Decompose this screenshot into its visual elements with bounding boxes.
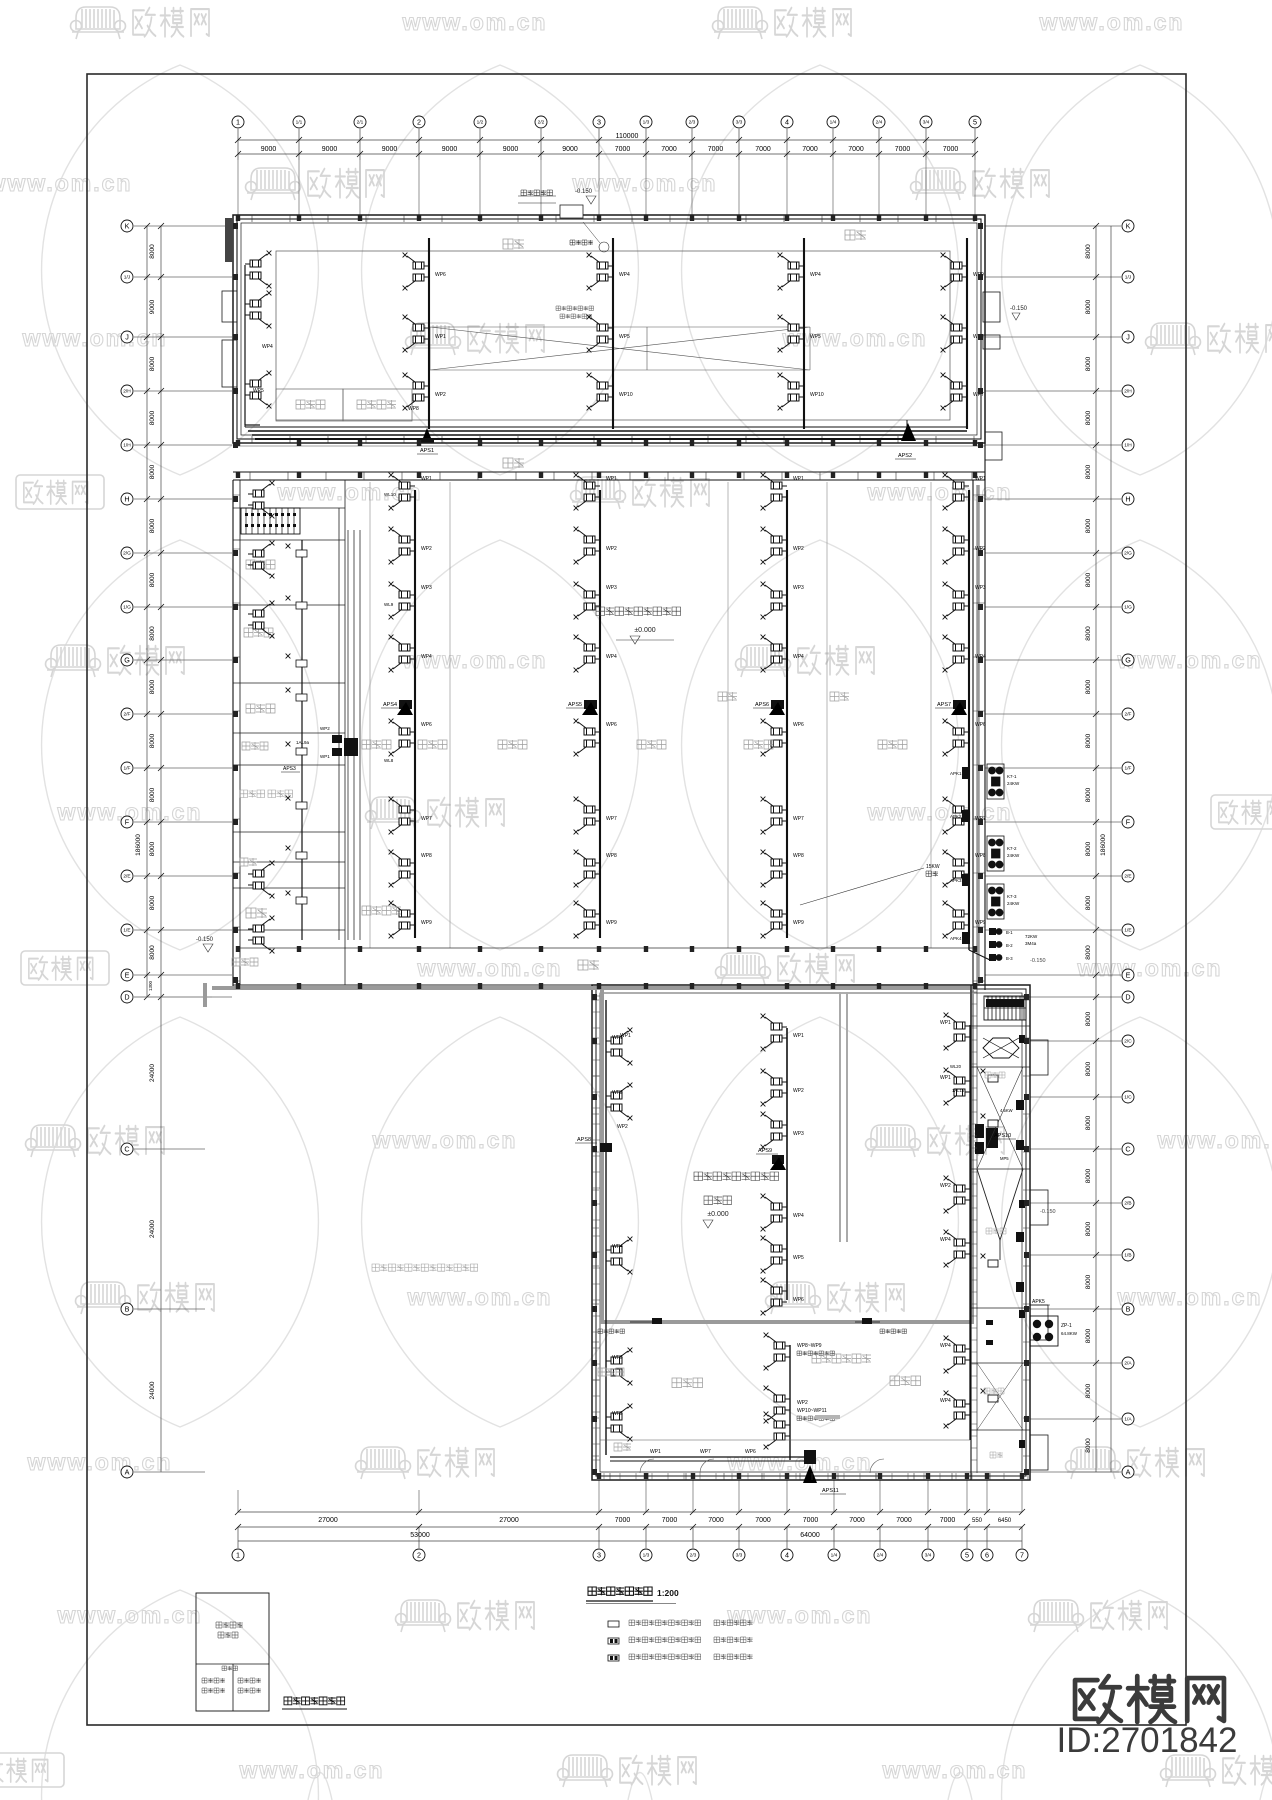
room name labels right column [985,1072,1005,1078]
svg-text:WP8: WP8 [408,406,419,412]
svg-text:WP4: WP4 [612,1244,623,1250]
svg-text:WP4: WP4 [793,1213,804,1219]
svg-text:-0.150: -0.150 [1030,958,1046,964]
device cluster WP4 right column [944,1336,970,1374]
hatched board block top of right column [984,996,1026,1020]
svg-text:24000: 24000 [149,1064,156,1082]
right rooms column [970,985,972,1480]
svg-text:8000: 8000 [1085,356,1092,371]
device cluster WP3 on APS5 [574,582,600,620]
svg-text:7000: 7000 [615,1517,631,1524]
svg-text:1/4: 1/4 [830,120,837,126]
svg-text:WP2: WP2 [320,726,330,731]
structural columns on walls [233,215,1029,1479]
svg-text:WP5: WP5 [612,1411,623,1417]
svg-text:15KW: 15KW [926,864,940,870]
svg-text:3/3: 3/3 [736,120,743,126]
svg-text:8000: 8000 [1085,1115,1092,1130]
svg-text:WP2: WP2 [793,546,804,552]
device cluster WP1 on APS5 [574,473,600,511]
wall pier top-left [225,218,233,262]
svg-text:WP5: WP5 [619,334,630,340]
svg-text:2/F: 2/F [1125,712,1132,718]
svg-text:www.om.cn: www.om.cn [1117,1284,1263,1310]
wire riser right column [969,1025,971,1440]
svg-text:WP2: WP2 [435,392,446,398]
svg-text:1/G: 1/G [123,605,131,611]
bottom block outer walls [592,985,1030,1480]
svg-text:7: 7 [1020,1551,1024,1560]
svg-text:8000: 8000 [149,572,156,587]
svg-text:WP3: WP3 [793,1131,804,1137]
device cluster WP3 on APS7 [943,582,969,620]
svg-text:7000: 7000 [615,146,631,153]
corridor between top and middle blocks [233,442,985,444]
device cluster WP5 on APS9 [761,1236,787,1274]
device cluster corridor lighting [764,1333,790,1371]
svg-text:WP8: WP8 [975,853,986,859]
svg-text:K7-3: K7-3 [1007,894,1017,899]
svg-text:±0.000: ±0.000 [634,627,655,634]
svg-text:WP1: WP1 [620,1033,631,1039]
svg-text:WP10~WP11: WP10~WP11 [797,1408,827,1414]
svg-text:186000: 186000 [1100,834,1107,856]
svg-text:8000: 8000 [1085,945,1092,960]
left grid axes with bubbles and dimensions [121,220,232,1478]
svg-text:9000: 9000 [261,146,277,153]
svg-text:24000: 24000 [149,1381,156,1399]
svg-text:8000: 8000 [149,410,156,425]
svg-text:8000: 8000 [1085,895,1092,910]
device cluster WP1 on APS4 [389,473,415,511]
svg-text:2/E: 2/E [1124,874,1131,880]
svg-text:2/2: 2/2 [538,120,545,126]
motor group K7-1 [987,764,1004,799]
svg-text:1: 1 [236,118,240,127]
svg-text:8000: 8000 [149,679,156,694]
svg-text:WP8: WP8 [606,853,617,859]
device cluster WP8 on APS7 [943,850,969,888]
svg-text:WP1: WP1 [606,476,617,482]
svg-text:8000: 8000 [1085,626,1092,641]
gray fire wall right side of middle block [976,485,980,985]
svg-text:53000: 53000 [410,1532,430,1539]
svg-text:APS5: APS5 [568,702,582,708]
device cluster WP2 right column [944,1176,970,1214]
svg-text:www.om.cn: www.om.cn [417,955,563,981]
device cluster WP7 on APS6 [761,797,787,835]
svg-text:WP4: WP4 [940,1343,951,1349]
svg-text:APK5: APK5 [1032,1299,1045,1305]
svg-text:H: H [1125,495,1130,504]
svg-text:WP5: WP5 [612,1355,623,1361]
svg-text:WP8~WP9: WP8~WP9 [797,1343,822,1349]
svg-text:WP2: WP2 [797,1400,808,1406]
svg-text:8000: 8000 [1085,1383,1092,1398]
svg-text:4.5KW: 4.5KW [1000,1108,1013,1113]
svg-text:www.om.cn: www.om.cn [867,799,1013,825]
svg-text:WP6: WP6 [435,272,446,278]
svg-text:1/4: 1/4 [831,1553,838,1559]
door arcs on bottom wall of bottom block [640,1459,884,1473]
svg-text:1/A: 1/A [1124,1417,1132,1423]
svg-text:-0.150: -0.150 [1010,306,1028,312]
svg-text:8000: 8000 [1085,410,1092,425]
svg-text:K7-1: K7-1 [1007,774,1017,779]
wire: riser from bus to devices (top block col 2) [612,238,614,429]
crane rail band with X bracing [430,327,810,370]
svg-text:WP6: WP6 [975,722,986,728]
svg-text:7000: 7000 [895,146,911,153]
svg-text:WP4: WP4 [619,272,630,278]
motor group K7-3 [987,884,1004,919]
svg-text:8000: 8000 [1085,299,1092,314]
svg-text:1/2: 1/2 [477,120,484,126]
legend symbol row 1 [608,1621,619,1627]
svg-text:8000: 8000 [1085,464,1092,479]
svg-text:WP6: WP6 [421,722,432,728]
svg-text:www.om.cn: www.om.cn [402,647,548,673]
svg-text:9000: 9000 [322,146,338,153]
device cluster WP2 on APS4 [389,527,415,565]
svg-text:ID:2701842: ID:2701842 [1057,1721,1238,1760]
hexagonal equipment outline [983,1038,1019,1058]
device cluster WP4 right column [944,1230,970,1268]
svg-text:www.om.cn: www.om.cn [867,479,1013,505]
device cluster WP4 [587,253,613,291]
svg-text:www.om.cn: www.om.cn [1039,9,1185,35]
svg-text:8000: 8000 [1085,1168,1092,1183]
svg-text:E: E [125,971,130,980]
svg-text:WP3: WP3 [612,1090,623,1096]
svg-text:WP1: WP1 [940,1020,951,1026]
svg-text:WP6: WP6 [793,722,804,728]
door machine labels bottom wall [598,1329,625,1334]
svg-text:ZP-1: ZP-1 [1061,1323,1072,1329]
svg-text:WP9: WP9 [975,920,986,926]
device cluster WP2 on APS9 [761,1069,787,1107]
svg-text:B-3: B-3 [1006,956,1013,961]
svg-text:F: F [1126,818,1131,827]
device cluster WP10 [587,373,613,411]
svg-text:1/C: 1/C [1124,1095,1132,1101]
svg-text:2/H: 2/H [123,389,131,395]
svg-text:WP3: WP3 [793,585,804,591]
svg-text:2/1: 2/1 [357,120,364,126]
svg-text:WP3: WP3 [421,585,432,591]
device cluster WP6 on APS5 [574,719,600,757]
device cluster WP1 right column [944,1068,970,1106]
svg-text:64000: 64000 [800,1532,820,1539]
small panels along wall x1020 [1019,1035,1025,1043]
device on left-room feeder [296,550,307,557]
svg-text:WP7: WP7 [793,816,804,822]
panel APS4 [399,700,412,709]
svg-text:D: D [124,993,129,1002]
device cluster WP8 on APS5 [574,850,600,888]
device cluster corridor lighting [764,1386,790,1424]
svg-text:www.om.cn: www.om.cn [0,170,132,196]
svg-text:1/J: 1/J [124,275,131,281]
corridor lines bottom block [600,1439,970,1441]
svg-text:WP2: WP2 [617,1124,628,1130]
device cluster WP7 on APS5 [574,797,600,835]
svg-text:8000: 8000 [1085,787,1092,802]
svg-text:WL20: WL20 [950,1064,962,1069]
svg-text:WP9: WP9 [421,920,432,926]
device cluster WP5 on APS8 [606,1404,632,1442]
device cluster WP1 [403,315,429,353]
middle block zone divider lines [370,482,931,948]
svg-text:WP1: WP1 [650,1449,661,1455]
svg-text:1AL15: 1AL15 [952,1088,965,1093]
svg-text:www.om.cn: www.om.cn [1117,647,1263,673]
svg-text:WP9: WP9 [793,920,804,926]
left rooms feeder [301,540,303,940]
device cluster WP3 on APS6 [761,582,787,620]
svg-text:9000: 9000 [503,146,519,153]
device cluster WP7 on APS4 [389,797,415,835]
lower right rooms extra [977,1363,1023,1430]
svg-text:8000: 8000 [1085,1328,1092,1343]
device cluster WP3 on APS4 [389,582,415,620]
svg-text:APS11: APS11 [822,1488,839,1494]
svg-text:2: 2 [417,1551,421,1560]
panel APS1 [421,428,433,443]
svg-text:110000: 110000 [616,133,639,140]
svg-text:WP4: WP4 [793,654,804,660]
device cluster WP3 on APS9 [761,1112,787,1150]
svg-text:B: B [125,1305,130,1314]
device on left-room feeder [296,802,307,809]
device on left-room feeder [296,852,307,859]
device cluster WP9 on APS4 [389,901,415,939]
open area label: existing building part [372,1264,478,1271]
panel APS11 [803,1465,817,1483]
svg-text:K: K [1126,222,1131,231]
svg-text:E: E [1126,971,1131,980]
device on left-room feeder [296,748,307,755]
svg-text:WP6: WP6 [745,1449,756,1455]
svg-text:WP6: WP6 [793,1297,804,1303]
main title: first floor power distribution plan 1:200 [588,1587,652,1595]
svg-text:7000: 7000 [802,146,818,153]
svg-text:8000: 8000 [149,787,156,802]
svg-text:www.om.cn: www.om.cn [727,1602,873,1628]
panel APS8 [600,1143,612,1152]
svg-text:WP2: WP2 [940,1183,951,1189]
svg-text:-0.150: -0.150 [196,937,214,943]
pump room inner lines and devices (right column) [977,1067,1023,1169]
svg-text:7000: 7000 [943,146,959,153]
device cluster WP1 on APS9 [761,1014,787,1052]
svg-text:3: 3 [597,118,601,127]
zone labels (production areas) [362,740,391,749]
left wall door protrusions [222,291,237,322]
device cluster WP10 [778,373,804,411]
svg-text:WP2: WP2 [606,546,617,552]
motor group K7-2 [987,836,1004,871]
svg-text:2/4: 2/4 [876,120,883,126]
svg-text:B: B [1126,1305,1131,1314]
device cluster WP9 on APS7 [943,901,969,939]
svg-text:1AL9a: 1AL9a [296,740,310,745]
top grid axes with bubbles and dimensions [232,116,981,217]
svg-text:WP2: WP2 [421,546,432,552]
left feeder APS8 [605,1000,607,1455]
svg-text:www.om.cn: www.om.cn [372,1127,518,1153]
svg-text:550: 550 [972,1518,983,1524]
device cluster WP6 on APS6 [761,719,787,757]
svg-text:D: D [1125,993,1130,1002]
exhaust fan leader with circled tag [583,222,600,243]
svg-text:27000: 27000 [499,1517,519,1524]
device cluster WP2 [403,373,429,411]
svg-text:WP3: WP3 [975,585,986,591]
svg-text:4: 4 [785,1551,789,1560]
svg-text:www.om.cn: www.om.cn [572,170,718,196]
svg-text:5: 5 [965,1551,969,1560]
feeder riser APS6 (middle block) [786,490,788,938]
svg-text:7000: 7000 [708,146,724,153]
150KW pump leader [800,868,924,905]
svg-text:WP2: WP2 [793,1088,804,1094]
svg-text:K7-2: K7-2 [1007,846,1017,851]
device cluster WP9 [941,253,967,291]
panel APS6 [771,700,784,709]
svg-text:8000: 8000 [149,244,156,259]
device cluster WP6 on APS4 [389,719,415,757]
svg-text:www.om.cn: www.om.cn [1077,955,1223,981]
svg-text:WP4: WP4 [606,654,617,660]
top block inner boundary [276,251,950,420]
device on left-room feeder [296,694,307,701]
device on left-room feeder [296,660,307,667]
svg-text:WP1: WP1 [793,476,804,482]
svg-text:2/G: 2/G [1124,551,1132,557]
svg-text:24KW: 24KW [1007,781,1020,786]
svg-text:2/B: 2/B [1124,1201,1131,1207]
svg-text:1/3: 1/3 [643,1553,650,1559]
wire: riser from bus to devices (top block col 4) [966,238,968,429]
svg-text:8000: 8000 [1085,1274,1092,1289]
svg-text:B-2: B-2 [1006,943,1013,948]
bottom block mid feeder APS9 [786,1028,788,1300]
svg-text:WL10: WL10 [384,492,396,497]
svg-text:3/3: 3/3 [736,1553,743,1559]
svg-text:7000: 7000 [661,146,677,153]
svg-text:www.om.cn: www.om.cn [407,1284,553,1310]
middle block left wall devices [248,481,274,519]
svg-text:3/4: 3/4 [925,1553,932,1559]
svg-text:1/G: 1/G [1124,605,1132,611]
svg-text:8000: 8000 [1085,679,1092,694]
device cluster WP2 on APS5 [574,527,600,565]
svg-text:www.om.cn: www.om.cn [882,1757,1028,1783]
svg-text:APS3: APS3 [283,766,296,772]
svg-text:G: G [1125,656,1131,665]
svg-text:www.om.cn: www.om.cn [27,1449,173,1475]
svg-text:8000: 8000 [1085,1061,1092,1076]
group garden label [362,906,401,915]
svg-text:5: 5 [973,118,977,127]
wires riser bundle along x=350 [348,530,360,940]
zone partition diagram box [196,1593,269,1711]
device cluster WP1 on APS7 [943,473,969,511]
svg-text:WP5: WP5 [253,388,264,394]
device cluster WP4 on APS9 [761,1194,787,1232]
svg-text:WP5: WP5 [810,334,821,340]
device cluster WP8 on APS4 [389,850,415,888]
svg-text:7000: 7000 [755,146,771,153]
device on left-room feeder [296,602,307,609]
device cluster WP4 on APS6 [761,635,787,673]
svg-text:8000: 8000 [149,518,156,533]
svg-text:9000: 9000 [442,146,458,153]
svg-text:1:200: 1:200 [657,1588,679,1598]
svg-text:APK3: APK3 [950,878,962,883]
svg-text:64.8KW: 64.8KW [1061,1331,1078,1336]
panel APS5 [584,700,597,709]
svg-text:8000: 8000 [149,895,156,910]
svg-text:27000: 27000 [318,1517,338,1524]
inner partition double line [840,992,847,1242]
device cluster WP8 [941,315,967,353]
svg-text:2/E: 2/E [123,874,130,880]
sorting room boxes bottom-left of top block [276,389,343,421]
device cluster WP2 on APS6 [761,527,787,565]
device cluster WP5 [587,315,613,353]
svg-text:1/1: 1/1 [296,120,303,126]
svg-text:www.om.cn: www.om.cn [402,9,548,35]
svg-text:3: 3 [597,1551,601,1560]
panel APS7 [953,700,966,709]
svg-text:7000: 7000 [803,1517,819,1524]
svg-text:8000: 8000 [1085,518,1092,533]
svg-text:8000: 8000 [149,945,156,960]
svg-text:8000: 8000 [149,626,156,641]
svg-text:APS10: APS10 [994,1133,1011,1139]
svg-text:2: 2 [417,118,421,127]
svg-text:1/J: 1/J [1125,275,1132,281]
distribution board array (battery block) [241,508,300,534]
svg-text:WP3: WP3 [606,585,617,591]
fire compartment thick boundary [602,988,972,1322]
svg-text:WP9: WP9 [606,920,617,926]
device cluster WP9 on APS6 [761,901,787,939]
svg-text:A: A [125,1468,130,1477]
svg-text:1/F: 1/F [124,766,131,772]
svg-text:WP1: WP1 [320,754,330,759]
device cluster corridor lighting [764,1412,790,1450]
feeder riser APS5 (middle block) [599,490,601,938]
panel 1AL9a cluster [332,735,342,743]
svg-text:8000: 8000 [149,733,156,748]
right wall protrusions [983,292,1000,322]
svg-text:2/H: 2/H [1124,389,1132,395]
svg-text:www.om.cn: www.om.cn [57,1602,203,1628]
bottom grid axes with bubbles and dimensions [232,1480,1028,1561]
fan group B-1..B-4 [989,928,996,935]
svg-text:WP4: WP4 [262,344,273,350]
svg-text:APS6: APS6 [755,702,769,708]
device cluster WP3 on APS8 [606,1083,632,1121]
svg-text:WP7: WP7 [606,816,617,822]
feeder riser APS7 (middle block) [968,490,970,938]
device cluster WP2 on APS7 [943,527,969,565]
svg-text:APS1: APS1 [420,448,434,454]
svg-text:6: 6 [985,1551,989,1560]
